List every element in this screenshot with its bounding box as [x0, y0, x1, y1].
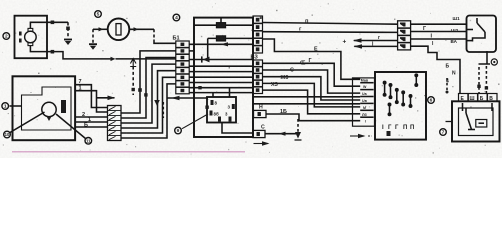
inline connector on return wire	[111, 57, 116, 61]
label circled 2	[3, 33, 10, 40]
wiper motor housing outline	[22, 87, 72, 130]
R1 tick to top edge	[220, 18, 222, 23]
X3 upper pin contacts	[256, 18, 260, 51]
scan grain overlay	[0, 0, 502, 158]
cluster gauge element 1	[384, 83, 386, 95]
wire dashed drop to ground G1	[67, 22, 69, 38]
wire E elbow to cluster pin 1	[263, 39, 361, 79]
junction dot relay left	[205, 106, 208, 109]
relay stub up b	[229, 88, 231, 97]
label circled 6	[428, 97, 435, 104]
wire elbow e6	[121, 84, 176, 138]
relay K1 box	[207, 97, 236, 123]
ground bar G4	[479, 63, 491, 65]
relay stub up a	[212, 93, 214, 97]
switch lever	[476, 18, 478, 23]
wire elbow e1 X1 to pin row 2	[121, 51, 176, 113]
label circled 11	[85, 138, 92, 145]
relay coil	[476, 120, 487, 128]
wiper switch box (component 8)	[467, 16, 497, 53]
ground G2	[89, 43, 97, 45]
leader line from circled 10	[10, 112, 45, 133]
cluster gauge element 3	[396, 90, 398, 102]
scan artifact line	[12, 151, 245, 153]
wire 1: motor to connector X1	[75, 91, 107, 112]
crossing wire w1	[189, 59, 253, 61]
label circled 9	[175, 127, 182, 134]
wire elbow e2	[121, 58, 176, 119]
dashed riser to relay pin 4	[485, 66, 487, 94]
wire X5 down to relay feed	[411, 46, 460, 93]
motor brushes	[19, 32, 22, 36]
wiper motor M1	[42, 102, 56, 116]
crossing wire w7	[189, 92, 253, 94]
wire dashed drop to ground G2	[92, 29, 94, 43]
label circled 5	[95, 11, 102, 18]
junction on w6	[198, 86, 201, 89]
junction on elbow e1	[138, 88, 142, 92]
wire X5 to switch c	[411, 38, 467, 40]
wiper motor assembly box (component 1)	[13, 76, 76, 140]
long wire to cluster (relay out a)	[253, 96, 360, 98]
washer pump box (component 2)	[15, 16, 48, 59]
relay bottom wire to C pin	[222, 123, 253, 134]
stub relay left	[446, 121, 453, 123]
inline arrow on w0	[221, 42, 229, 46]
cluster gauge element 4	[402, 92, 404, 104]
wire pump bottom return	[30, 46, 110, 59]
pin strip X3 upper (right of module)	[253, 16, 263, 53]
label circled 10	[4, 131, 11, 138]
wire X5 to switch a	[411, 23, 467, 25]
label circled 4	[173, 14, 180, 21]
wire 1b	[75, 121, 107, 123]
dashed stub at 447	[446, 78, 448, 90]
long wire to cluster (relay out b)	[253, 103, 360, 105]
resistor R2	[216, 36, 225, 41]
washer pump motor M2	[25, 31, 37, 43]
warning lamp (component 5)	[108, 19, 130, 41]
wire R2 left drop	[207, 38, 209, 59]
crossing wire w5	[189, 82, 253, 84]
crossing wire w4	[189, 76, 253, 78]
pin strip X3 lower	[253, 60, 263, 94]
wire elbow e5	[121, 77, 176, 133]
cluster element 7	[410, 96, 412, 106]
wire pump top feed	[30, 22, 68, 28]
relay pin marks	[210, 100, 235, 122]
label circled 1	[2, 103, 9, 110]
connector X1 (hatched)	[108, 106, 122, 141]
X2 pin contacts	[181, 43, 185, 93]
crossing wire w0	[189, 43, 253, 45]
pin C box	[253, 130, 265, 137]
node junction on return	[51, 50, 55, 54]
motor crank	[47, 117, 52, 122]
switch ground stub	[486, 51, 488, 64]
cluster lamp element 5	[415, 75, 417, 85]
resistor R1 wire	[194, 24, 253, 26]
inter-sheet arrow A3	[350, 134, 372, 138]
wiper control module U1	[194, 18, 253, 137]
dashed riser to relay pin 3	[478, 67, 480, 94]
label circled dot	[491, 59, 497, 65]
wire C to ground drop	[265, 133, 296, 135]
wire dashed drop then to pin B1	[153, 29, 155, 39]
switch contact stubs	[467, 29, 473, 31]
dashed riser with up arrow	[132, 67, 134, 96]
connector X5 (top right)	[398, 21, 411, 50]
long wire f to connector X5	[263, 31, 398, 34]
wire elbow r3	[263, 70, 361, 93]
cluster ink mark	[387, 131, 391, 136]
lamp right lead	[129, 28, 154, 30]
leader line to circled 11	[56, 114, 86, 139]
resistor R2 wire	[208, 37, 253, 39]
wire 5	[75, 126, 107, 128]
crossing wire w2	[189, 65, 253, 67]
relay inner stubs	[462, 103, 464, 111]
relay switch contact	[465, 108, 467, 113]
wire elbow r2	[263, 63, 361, 86]
leader line from circled 1	[10, 105, 22, 107]
washer relay box (component 7)	[452, 101, 500, 141]
wire elbow e3	[121, 64, 176, 123]
ground G1	[64, 39, 72, 41]
pin H box	[254, 110, 267, 117]
X5 pin contacts	[400, 23, 406, 49]
lamp left lead	[93, 28, 108, 30]
inter-sheet arrow A1	[97, 97, 115, 99]
relay connector row X6	[459, 94, 498, 102]
wire elbow r6	[263, 90, 361, 114]
dashed stub below arrow	[162, 102, 164, 118]
wire return continues to pin strip	[116, 58, 177, 60]
pin strip X2 left column	[176, 41, 189, 94]
scan speckles	[2, 3, 499, 154]
wire X5 to switch b	[411, 31, 467, 33]
node junction on top feed	[51, 21, 55, 25]
motor terminal block	[61, 100, 66, 113]
wire H to cluster pin 7	[266, 114, 360, 121]
cluster connector X4	[353, 78, 375, 126]
cluster element 6	[389, 105, 391, 115]
dashed drop with down arrow G3	[297, 119, 299, 132]
crossing wire w3	[189, 71, 253, 73]
X1 hatch marks	[109, 106, 116, 139]
crossing wire w6	[189, 87, 253, 89]
X3 lower pin contacts	[256, 62, 260, 92]
wire with inline connector arrow to module	[167, 97, 208, 99]
small junction arrow down at x157	[154, 100, 160, 106]
resistor R1	[216, 23, 225, 28]
wire elbow r5	[263, 83, 361, 107]
X6 pin letters	[461, 96, 494, 102]
wire elbow e4	[121, 71, 176, 128]
wire 7: motor to connector X1	[75, 85, 107, 108]
instrument cluster box (component 6)	[375, 72, 426, 140]
wire elbow r4	[263, 77, 361, 100]
inline arrows pair (to sheet 2)	[354, 40, 398, 42]
cluster gauge element 2	[390, 85, 392, 97]
diode D1	[203, 57, 210, 63]
label circled 7	[440, 129, 447, 136]
stub pin2 to module	[189, 50, 194, 52]
leader from circled 9 to relay	[182, 114, 208, 129]
inter-sheet arrow A2	[254, 143, 269, 145]
long wire n to connector X5	[263, 23, 398, 25]
wire 2	[75, 116, 107, 118]
